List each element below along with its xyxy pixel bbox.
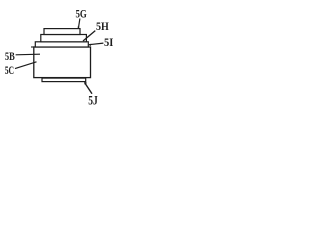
svg-text:5I: 5I [104, 35, 114, 49]
svg-text:5H: 5H [96, 19, 109, 33]
svg-text:5B: 5B [5, 49, 15, 63]
svg-text:5C: 5C [5, 63, 14, 77]
bottom slab 5J [42, 78, 86, 82]
leader 5J [84, 82, 92, 94]
leader 5G [77, 19, 80, 29]
main body 5B/5C [31, 47, 91, 78]
layer 5I [35, 42, 88, 47]
svg-text:5G: 5G [76, 7, 87, 21]
leader 5C [15, 62, 37, 69]
top layer 5G [44, 29, 80, 35]
leader 5B [16, 53, 40, 56]
layer 5H [41, 35, 87, 42]
leader 5H [83, 31, 95, 41]
leader 5I [88, 43, 104, 46]
svg-text:5J: 5J [88, 92, 98, 107]
